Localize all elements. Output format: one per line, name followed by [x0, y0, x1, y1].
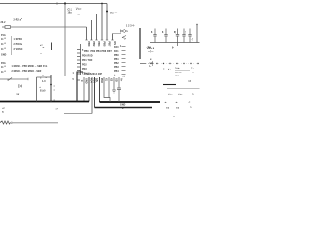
pin 20 plus mark — [123, 76, 126, 78]
wire: dark vertical GND bus x77 with stub to IC — [77, 72, 83, 102]
svg-text:P1A: P1A — [1, 34, 6, 37]
switch S1 in y79 wire — [7, 78, 12, 81]
wire: bottom-left thin line y122.5 — [13, 122, 58, 124]
wire: dotted junction line y63.5 — [140, 63, 200, 64]
svg-text:= ·: = · — [191, 68, 194, 70]
notes row y102 — [164, 102, 191, 104]
capacitor values right of frame — [54, 86, 56, 102]
connector P2 pin row 1 with net name — [1, 66, 47, 69]
notes row y107 — [166, 107, 192, 110]
svg-text:·»·: ·»· — [164, 102, 167, 104]
connector P2 header label — [1, 62, 6, 65]
jumper SW1 labels — [40, 45, 45, 56]
wire: vertical x102 from rail to pull-up bank — [101, 4, 103, 41]
junction dot left low — [120, 45, 121, 46]
connector P1 pin row 1 — [1, 38, 22, 41]
net label Vcc at tap — [110, 13, 117, 15]
IC U1 bottom pin labels (rotated) — [85, 78, 123, 84]
notes row y94 — [168, 94, 194, 96]
svg-text:PB1: PB1 — [114, 59, 119, 61]
tick near x46 y77 — [46, 78, 48, 80]
capacitor C7 — [188, 29, 193, 43]
plus tick on dotted line — [152, 61, 154, 66]
svg-text:PB5: PB5 — [103, 42, 106, 47]
svg-text:3 VOSC: 3 VOSC — [14, 49, 23, 51]
connector P1 bottom label — [1, 55, 7, 57]
wire: left net at y79 — [0, 78, 28, 80]
svg-text:PB4: PB4 — [114, 70, 119, 73]
pin name label (rotated) comb 2 — [92, 42, 95, 47]
resistor R8 (zigzag) at bottom-left — [0, 121, 11, 124]
svg-text:GND: GND — [1, 55, 7, 57]
wire: sub-circuit left vertical — [36, 77, 38, 102]
svg-text:P2A: P2A — [1, 62, 6, 65]
svg-text:PB0: PB0 — [114, 55, 119, 57]
svg-text:~·: ~· — [40, 54, 42, 56]
capacitor C5 — [174, 29, 179, 43]
svg-text:PD0 RXD: PD0 RXD — [82, 56, 93, 58]
svg-text:·»·: ·»· — [175, 102, 178, 104]
svg-text:PD3: PD3 — [82, 69, 87, 71]
svg-text:GN: GN — [95, 78, 98, 82]
thin line y88 right — [167, 88, 200, 90]
connector P1 pin row 3 — [1, 48, 23, 51]
svg-text:=«»·: =«»· — [175, 68, 180, 70]
wire: top of sub-circuit — [37, 76, 52, 78]
svg-text:PA1: PA1 — [114, 50, 119, 53]
pin number text left of bus — [73, 73, 75, 81]
svg-text:GD: GD — [115, 78, 118, 82]
svg-text:1 2 3 4 ·: 1 2 3 4 · — [126, 25, 135, 28]
label above sub-circuit — [42, 75, 44, 77]
transistor Q1 symbol marks — [121, 30, 129, 34]
svg-text:20·2: 20·2 — [1, 22, 7, 24]
svg-text:~·: ~· — [78, 15, 80, 17]
title row above transistor — [126, 25, 135, 28]
wire: horizontal net at y27 from left edge — [2, 26, 87, 28]
svg-text:—··—: —··— — [175, 72, 182, 74]
wire: comb vertical 6 (x112.5) — [111, 34, 121, 41]
net label near line end (C9) — [56, 109, 59, 111]
wire: tall vertical x197 to rail — [196, 24, 197, 43]
pin name label (rotated) comb 6 — [113, 42, 116, 46]
wire: x109 pin down to rail — [108, 77, 110, 98]
connector P1 bus line — [11, 36, 13, 55]
notes marks above y84 bar — [188, 81, 191, 83]
notes text block right (row 3) — [175, 75, 179, 77]
terminal circle bottom of right vertical — [50, 100, 52, 102]
svg-text:PB2: PB2 — [92, 42, 95, 47]
svg-text:PD2: PD2 — [82, 65, 87, 67]
svg-text:PD6: PD6 — [100, 78, 103, 83]
svg-text:A+: A+ — [120, 78, 123, 82]
svg-text:=·: =· — [192, 94, 194, 96]
capacitor C4 — [162, 29, 168, 43]
net label text block left-bottom (+5V) — [2, 108, 5, 114]
svg-text:PB2: PB2 — [114, 63, 119, 65]
wire: IC bottom pin x99.5 down, corner right into rail3 — [99, 77, 101, 102]
wire: IC bottom pin to ground rail (x84) — [83, 77, 85, 102]
notes text block right (row 2) — [175, 70, 194, 74]
svg-text:«W» a: «W» a — [147, 48, 155, 50]
ground rail 3 (thick, center-right) — [100, 101, 161, 103]
label above dotted line — [150, 59, 152, 61]
svg-text:PB0: PB0 — [87, 42, 90, 47]
junction dot VCC tap — [106, 11, 108, 13]
svg-text:··: ·· — [192, 72, 194, 74]
text rows left of frame — [40, 78, 42, 80]
wire: IC bottom pin x92 down, corner left thin line — [64, 77, 92, 114]
ground symbol under x114 — [112, 77, 116, 93]
pin name label (rotated) comb 1 — [87, 42, 90, 47]
wire: long vertical from node A down — [64, 4, 66, 77]
capacitor C6 — [182, 29, 186, 43]
label under diode — [17, 94, 20, 96]
svg-text:9·: 9· — [172, 48, 174, 50]
svg-text:GND: GND — [85, 78, 88, 84]
connector P1 pin row 2 — [1, 43, 23, 46]
svg-text:VCC: VCC — [76, 7, 82, 11]
wire: dark vertical x140 — [139, 28, 141, 59]
svg-text:AT90S2313 20P: AT90S2313 20P — [84, 73, 102, 76]
wire: IC bottom pin x94.5 down, corner right into rail2 — [94, 77, 96, 108]
wire: IC bottom pin x89 down, corner left into thick rail — [88, 77, 90, 102]
label above wire start — [1, 22, 7, 24]
svg-text:PA0: PA0 — [114, 46, 119, 49]
capacitor C3 — [151, 29, 157, 43]
svg-text:1 MOSI · PB5 MOSI ·· SER P·G: 1 MOSI · PB5 MOSI ·· SER P·G — [12, 66, 48, 68]
svg-text:Vcc ·–·: Vcc ·–· — [110, 13, 117, 15]
ground rail 2 (thick, center-right lower) — [95, 107, 153, 109]
wire: comb vertical 2 (x91.5) net stub — [90, 20, 92, 40]
wire: VCC top rail — [0, 3, 107, 5]
crystal Y1 symbol marks — [40, 87, 47, 93]
svg-text:RST: RST — [107, 51, 112, 53]
pin name label (rotated) comb 3 — [97, 42, 100, 47]
wire: x104 short jog — [104, 77, 110, 102]
svg-text:PB0: PB0 — [84, 51, 89, 53]
svg-text:v·: v· — [150, 59, 152, 61]
pin name label (rotated) comb 4 — [103, 42, 106, 47]
svg-text:2 POVa: 2 POVa — [14, 44, 23, 46]
svg-text:«»= ·: «»= · — [178, 94, 183, 96]
svg-text:~¸: ~¸ — [79, 71, 81, 73]
jumper SW1 bar — [51, 43, 53, 51]
svg-text:PB3: PB3 — [114, 67, 119, 69]
svg-text:1-0: 1-0 — [42, 81, 46, 83]
heavy short bar y84.5 — [163, 84, 176, 86]
inductor L1 label block — [147, 48, 155, 53]
label small top-left — [14, 18, 23, 22]
connector P2 pin row 2 with net name — [1, 71, 42, 74]
wire: sub-circuit right vertical (dark) — [50, 75, 52, 100]
resistor R1 (box in y27 wire) — [5, 26, 11, 29]
IC U1 part number row — [84, 73, 102, 76]
crystal Y1 value text — [42, 81, 46, 83]
IC U1 top inner pin names — [84, 50, 112, 53]
capacitor C2 at x119 — [117, 77, 121, 102]
junction dot on rail node B — [101, 3, 103, 5]
net label GND near rails — [120, 105, 126, 111]
svg-text:C1 ¦: C1 ¦ — [68, 10, 73, 12]
svg-text:GND: GND — [120, 105, 126, 107]
diode D1 below wire — [19, 85, 22, 88]
svg-text:-¦: -¦ — [191, 39, 193, 41]
svg-text:··· ·: ··· · — [175, 75, 179, 77]
ground rail (thick, left) — [0, 101, 89, 103]
svg-text:—¦—: —¦— — [148, 51, 154, 53]
junction dot on right vertical — [50, 84, 52, 86]
IC U1 left pins (stubs and names) — [77, 50, 81, 75]
svg-text:8¦: 8¦ — [174, 32, 176, 34]
capacitor C1 value label — [68, 10, 73, 15]
small mark under VCC label — [78, 15, 80, 17]
svg-text:2 MISO · PB6 MISO · SER: 2 MISO · PB6 MISO · SER — [12, 71, 42, 73]
IC U1 left pin names inside — [82, 50, 93, 76]
svg-text:PD1 TXD: PD1 TXD — [82, 60, 93, 62]
crystal label above stub — [79, 71, 81, 73]
wire: comb vertical 1 (x86.5) — [85, 27, 87, 40]
svg-text:~·: ~· — [173, 116, 175, 118]
svg-text:01±0: 01±0 — [40, 91, 46, 93]
diode D2 symbol marks — [122, 36, 126, 42]
text rows right middle — [148, 62, 154, 68]
svg-text:« ‐: « ‐ — [168, 69, 171, 71]
capacitor C5 lower stub below rail — [172, 43, 178, 50]
notes text block right (row 1) — [163, 68, 194, 71]
svg-text:PB4: PB4 — [97, 42, 100, 47]
label under cap rail — [146, 47, 151, 49]
svg-text:st: st — [81, 80, 83, 83]
terminal circle after R8 — [11, 122, 13, 124]
svg-text:10u: 10u — [68, 13, 73, 15]
svg-text:RS: RS — [113, 42, 116, 46]
junction: tick on rail — [56, 2, 58, 5]
wire: comb vertical 3 (x96.5) net stub — [95, 14, 97, 40]
svg-text:PB7: PB7 — [108, 42, 111, 47]
IC U1 right pins (stubs) — [122, 47, 126, 75]
net label VCC (italic) — [76, 7, 82, 11]
IC U1 right pin names inside — [114, 46, 119, 77]
svg-text:2·R2 ao: 2·R2 ao — [14, 18, 23, 22]
svg-text:=·: =· — [190, 107, 192, 109]
IC U1 body (left edge wire) — [80, 44, 82, 75]
terminal ticks for comb 4 and 5 — [101, 39, 108, 41]
decoupling capacitor rail (top right) — [150, 42, 200, 44]
connector P1 header label — [1, 34, 6, 37]
stub tick on bus — [77, 80, 83, 83]
pin name label (rotated) comb 5 — [108, 42, 111, 47]
svg-text:1 SPPA: 1 SPPA — [14, 38, 23, 41]
svg-text:«»—: «»— — [168, 94, 173, 96]
notes tilde mark — [173, 116, 175, 118]
junction dot node A — [64, 2, 66, 4]
wire: rail corner down at x107 — [106, 4, 108, 41]
